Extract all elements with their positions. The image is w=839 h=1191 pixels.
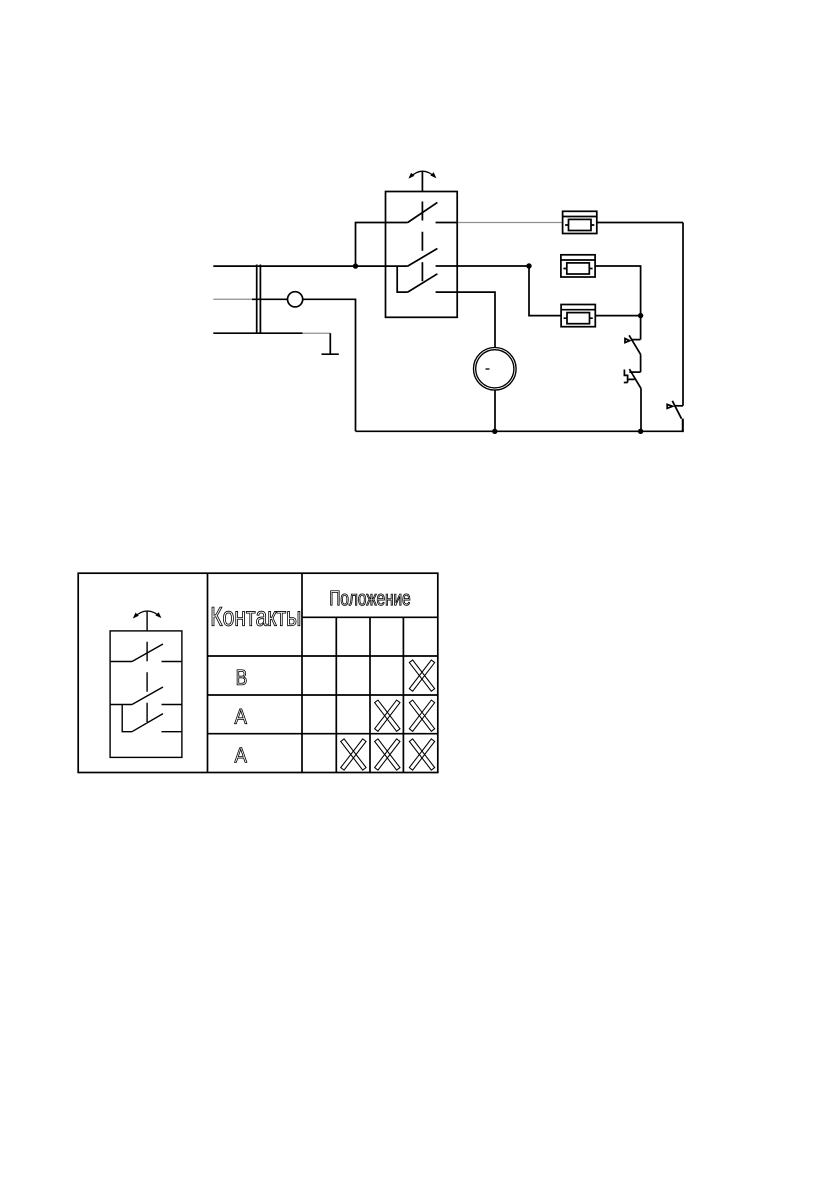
switch S1 box <box>386 192 458 318</box>
wire SK1 to SK2 <box>640 354 642 372</box>
lamp HL1 <box>288 292 303 307</box>
wire to fuse FU1 (thin gray) <box>458 222 563 224</box>
wire FU2 right <box>595 266 641 316</box>
X mark row А3 col3 <box>375 739 400 770</box>
table switch symbol box <box>110 631 182 758</box>
wire down to thermal switch SK1 <box>640 316 642 340</box>
table header underline <box>302 616 438 618</box>
wire lamp left <box>252 298 288 300</box>
wire to ground (thin gray) <box>303 332 331 334</box>
switch SK3 terminal <box>674 405 683 407</box>
switch S1 shaft <box>421 172 423 192</box>
node junction dot fuse branch left <box>526 263 531 268</box>
table contact 2 <box>110 687 182 705</box>
wire phase L to switch row2 <box>213 265 407 267</box>
switch S1 rotate arrow <box>410 171 436 177</box>
wire motor to bottom rail <box>494 390 496 431</box>
X mark row А3 col2 <box>341 739 366 770</box>
wire L to contact 3 <box>397 266 408 292</box>
wire lamp right <box>303 299 356 431</box>
thermal switch SK1 blade <box>629 335 641 354</box>
thermal switch SK1 actuator triangle <box>625 339 630 343</box>
wire branch down to FU3 <box>529 266 561 316</box>
contact 1 blade <box>408 202 438 222</box>
wire right rail <box>682 223 684 406</box>
contact 3 right terminal wire to motor <box>436 292 495 348</box>
wire to lamp (thin gray) <box>213 298 252 300</box>
switch S1 dashed axis <box>421 202 423 284</box>
table divider symbol/contacts <box>207 573 209 772</box>
ground <box>322 333 339 354</box>
fuse FU1 <box>563 211 597 233</box>
node junction dot SK2/rail <box>638 429 643 434</box>
contact 1 right terminal <box>436 222 458 224</box>
X mark row В col4 <box>409 660 434 691</box>
fuse FU2 <box>561 255 595 277</box>
contact 3 blade <box>408 274 438 292</box>
node junction dot fuse branch right <box>638 313 643 318</box>
table row line 2 <box>208 694 438 696</box>
table contact 3 <box>132 714 182 732</box>
label Положение <box>331 591 410 606</box>
table row line 3 <box>208 733 438 735</box>
table column line 3 <box>402 617 404 772</box>
table wire L to contact 3 <box>122 705 132 732</box>
wire SK2 to bottom rail <box>640 389 642 432</box>
motor M1 <box>474 348 517 391</box>
wire riser to switch row1 <box>356 223 408 267</box>
switch SK3 blade <box>672 401 681 419</box>
switch SK2 manual actuator <box>624 370 635 383</box>
wire neutral bottom <box>213 332 302 334</box>
table outer border <box>78 573 438 772</box>
label row В <box>237 670 246 685</box>
table column line 2 <box>369 617 371 772</box>
contact 2 blade <box>408 249 438 267</box>
table column line 1 <box>335 617 337 772</box>
wire bottom rail <box>356 419 684 432</box>
thermal switch SK1 terminal <box>632 339 641 341</box>
X mark row А3 col4 <box>409 739 434 770</box>
table divider contacts/positions <box>301 573 303 772</box>
label Контакты <box>212 607 300 626</box>
table contact 1 <box>110 644 182 662</box>
X mark row А2 col4 <box>409 700 434 731</box>
table <box>78 573 438 772</box>
fuse FU3 <box>561 305 595 327</box>
node junction dot at riser <box>353 263 358 268</box>
contact 2 right terminal wire to fuse branch <box>436 265 529 267</box>
switch SK2 terminal <box>629 371 640 373</box>
label row А bottom <box>235 748 247 763</box>
table switch rotate arrow <box>134 611 161 617</box>
table switch dashed axis <box>146 642 148 722</box>
connector X1 <box>257 265 261 335</box>
wire SK3 to bottom rail <box>682 419 684 432</box>
wire FU1 to right rail <box>597 222 683 224</box>
X mark row А2 col3 <box>375 700 400 731</box>
switch SK3 actuator triangle <box>667 404 672 408</box>
table row line 1 <box>208 655 438 657</box>
wire FU3 right <box>595 315 640 317</box>
switch SK2 blade <box>629 369 641 389</box>
label row А middle <box>235 709 247 724</box>
table switch shaft <box>146 611 148 631</box>
node junction dot motor/rail <box>492 429 497 434</box>
